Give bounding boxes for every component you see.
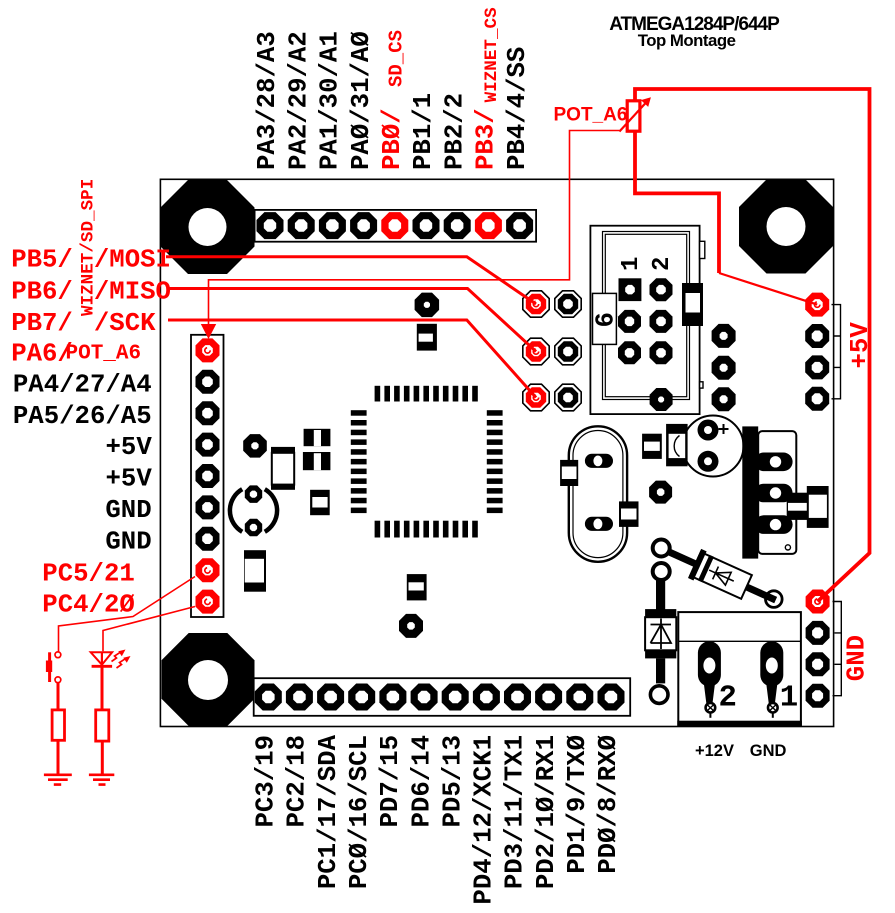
- top header pad PB&#216;: [381, 212, 408, 239]
- GND pad red: [806, 590, 830, 614]
- bottom header J2 outline: [254, 678, 631, 716]
- svg-text:+12V: +12V: [695, 742, 734, 760]
- top header pad PB2: [444, 212, 471, 239]
- svg-text:+5V: +5V: [106, 433, 153, 462]
- bottom header pad PD6: [411, 684, 438, 711]
- left header pad +5V: [196, 433, 220, 457]
- svg-text:PA5/26/A5: PA5/26/A5: [13, 402, 152, 431]
- diode D2 stem bottom: [656, 658, 665, 683]
- bottom header pad PD7: [379, 684, 406, 711]
- svg-text:+5V: +5V: [106, 465, 153, 494]
- svg-text:2: 2: [719, 681, 737, 716]
- power connector inner line: [678, 640, 801, 642]
- mounting hole top-left: [161, 180, 255, 274]
- wire PC5 to button: [59, 577, 196, 652]
- TO92 pad top: [245, 485, 262, 503]
- SMD L on crystal right: [619, 501, 639, 527]
- svg-text:PD1/9/TXØ: PD1/9/TXØ: [563, 735, 592, 874]
- ISP pad 6: [650, 341, 673, 364]
- SMD I: [407, 574, 427, 600]
- GND bracket: [833, 602, 842, 696]
- SMD M: [642, 434, 662, 459]
- top header pad PB4: [506, 212, 533, 239]
- svg-text:PD7/15: PD7/15: [376, 735, 405, 828]
- ISP pad 3: [618, 310, 641, 333]
- TO92 Q1 outline: [230, 489, 277, 532]
- ISP tab 6: [593, 293, 617, 344]
- regulator pad 1: [754, 453, 792, 472]
- ISP pad 2: [650, 278, 673, 301]
- +5V bracket: [832, 305, 841, 399]
- diode D2 stem top: [656, 580, 665, 610]
- svg-text:PBØ/: PBØ/: [378, 108, 407, 170]
- diode D2 symbol: [651, 619, 672, 650]
- svg-text:POT_A6: POT_A6: [554, 105, 628, 126]
- diode D1 pad bottom: [653, 563, 670, 580]
- svg-text:PCØ/16/SCL: PCØ/16/SCL: [345, 735, 374, 889]
- svg-text:PB6/: PB6/: [11, 277, 73, 306]
- svg-text:WIZNET_CS: WIZNET_CS: [482, 7, 502, 102]
- svg-text:6: 6: [592, 312, 621, 327]
- svg-text:PA2/29/A2: PA2/29/A2: [284, 31, 313, 170]
- SMD N with curve: [666, 424, 688, 466]
- C1 pad +: [698, 420, 719, 441]
- bottom header pad PC1: [317, 684, 344, 711]
- svg-text:GND: GND: [750, 742, 787, 760]
- svg-text:PC5/21: PC5/21: [42, 559, 135, 588]
- +5V pad red: [805, 293, 829, 317]
- left header pad GND: [196, 527, 220, 551]
- GND pad 3: [806, 652, 830, 676]
- resistor R2: [96, 710, 109, 741]
- power connector bottom thick edge: [677, 721, 802, 727]
- SMD H: [310, 490, 330, 515]
- diode D1 pad top: [653, 540, 670, 557]
- regulator U3 tab: [742, 426, 758, 558]
- svg-text:PD5/13: PD5/13: [438, 735, 467, 828]
- top header pad PB1: [413, 212, 440, 239]
- svg-text:WIZNET/SD_SPI: WIZNET/SD_SPI: [79, 179, 99, 316]
- svg-text:PDØ/8/RXØ: PDØ/8/RXØ: [594, 735, 623, 874]
- LED light arrows: [112, 652, 122, 662]
- via pad column right of ISP 2: [712, 356, 736, 380]
- bottom header pad PC&#216;: [348, 684, 375, 711]
- regulator heatsink pad: [807, 486, 829, 528]
- left header J3 outline: [191, 335, 224, 617]
- wire SCK: [168, 320, 536, 398]
- svg-text:PC2/18: PC2/18: [283, 735, 312, 828]
- via pad J: [399, 614, 423, 638]
- svg-text:/MISO: /MISO: [94, 277, 171, 306]
- svg-text:1: 1: [780, 681, 798, 716]
- GND pad 2: [806, 621, 830, 645]
- ISP bottom pad: [650, 388, 673, 411]
- via pad A: [415, 293, 440, 318]
- bottom header pad PC3: [255, 684, 282, 711]
- regulator pad 2: [754, 484, 792, 503]
- top header J1 outline: [255, 210, 536, 242]
- board outline: [160, 179, 833, 726]
- crystal pad 1: [585, 454, 613, 468]
- SMD K near PC5: [244, 550, 266, 592]
- bottom header pad PD1: [566, 684, 593, 711]
- C1 plus sign: [719, 424, 729, 434]
- crystal X1 outline: [569, 426, 627, 562]
- svg-text:Top Montage: Top Montage: [638, 31, 736, 50]
- diode D2 bottom pad: [650, 686, 668, 704]
- svg-text:PA6/: PA6/: [11, 339, 73, 368]
- svg-text:PA4/27/A4: PA4/27/A4: [13, 371, 152, 400]
- potentiometer POT_A6: [627, 101, 640, 131]
- svg-text:SD_CS: SD_CS: [386, 30, 408, 87]
- SPI pad PB7/SCK: [523, 384, 549, 411]
- regulator U3 body: [758, 431, 796, 554]
- wire R1 to ground: [57, 740, 60, 774]
- ISP box bump bottom: [700, 382, 703, 388]
- wire MISO: [167, 289, 536, 352]
- svg-text:PB4/4/SS: PB4/4/SS: [503, 47, 532, 170]
- wire PC4 to LED: [103, 607, 195, 652]
- top header pad PA&#216;: [350, 212, 377, 239]
- ground symbol S1: [44, 775, 72, 785]
- ISP inner box outer line: [603, 232, 690, 400]
- regulator pin1 mark: [785, 545, 790, 550]
- wire POT wiper to PA6: [209, 131, 620, 327]
- crystal pad 2: [585, 517, 613, 531]
- ISP pin1 square pad: [619, 278, 642, 301]
- wire R2 to ground: [101, 741, 104, 774]
- via pad C: [243, 434, 267, 458]
- bottom header pad PD&#216;: [598, 684, 625, 711]
- regulator heatsink bar: [787, 493, 809, 520]
- top header pad PB3: [475, 212, 502, 239]
- C1 pad -: [698, 451, 719, 472]
- SPI pad MOSI-b: [555, 291, 581, 317]
- svg-text:PD4/12/XCK1: PD4/12/XCK1: [470, 735, 499, 905]
- svg-text:PC1/17/SDA: PC1/17/SDA: [314, 734, 343, 889]
- bottom header pad PD2: [535, 684, 562, 711]
- regulator pad 3: [754, 515, 792, 534]
- svg-text:PD3/11/TX1: PD3/11/TX1: [501, 735, 530, 889]
- left header pad PA5: [196, 401, 220, 425]
- SMD cap D: [271, 447, 295, 453]
- resistor R1: [52, 710, 64, 740]
- ISP box bump top: [700, 241, 705, 258]
- SMD resistor B: [417, 324, 437, 351]
- top header pad PA3: [257, 212, 284, 239]
- svg-text:PB5/: PB5/: [11, 246, 73, 275]
- left header pad GND: [196, 495, 220, 519]
- svg-text:/SCK: /SCK: [94, 309, 156, 338]
- SMD F: [304, 429, 331, 446]
- top header pad PA2: [288, 212, 315, 239]
- left header pad PA4: [196, 370, 220, 394]
- svg-text:/MOSI: /MOSI: [94, 246, 171, 275]
- bottom header pad PD3: [504, 684, 531, 711]
- wire POT top to GND pad: [635, 89, 870, 602]
- left header pad +5V: [196, 464, 220, 488]
- SMD K2 on crystal left: [560, 460, 578, 486]
- bottom header pad PD5: [442, 684, 469, 711]
- svg-text:GND: GND: [105, 527, 151, 556]
- ISP key tab: [682, 283, 703, 326]
- power terminal 1: [760, 641, 783, 686]
- left header pad PC4: [196, 590, 220, 614]
- ISP header U2 outer box: [590, 226, 699, 414]
- +5V pad 2: [805, 324, 829, 348]
- svg-text:PC4/2Ø: PC4/2Ø: [42, 591, 135, 620]
- svg-text:PB7/: PB7/: [11, 309, 73, 338]
- ISP inner box inner line: [605, 234, 686, 396]
- SPI pad PB5/MOSI: [523, 291, 549, 317]
- via pad O: [649, 481, 672, 504]
- via pad column right of ISP 1: [712, 324, 736, 348]
- svg-text:PB3/: PB3/: [472, 108, 501, 170]
- svg-text:GND: GND: [105, 496, 151, 525]
- ground symbol D3: [89, 775, 114, 785]
- svg-text:2: 2: [649, 257, 676, 271]
- wire end marks in red pad holes: [533, 301, 538, 306]
- mounting hole bottom-left: [162, 633, 255, 726]
- bottom header pad PD4: [473, 684, 500, 711]
- wire MOSI: [166, 257, 536, 304]
- TO92 pad bottom: [245, 519, 262, 536]
- svg-text:POT_A6: POT_A6: [66, 343, 142, 366]
- svg-text:GND: GND: [843, 635, 872, 681]
- SPI pad PB6/MISO: [523, 338, 549, 365]
- QFP44 U1 pads: [351, 386, 503, 538]
- diode D1 right pad: [766, 591, 783, 608]
- left header pad PC5: [196, 558, 220, 582]
- wire LED to R2: [101, 666, 104, 710]
- svg-text:1: 1: [618, 257, 645, 271]
- power terminal 2: [698, 641, 721, 686]
- GND pad 4: [806, 684, 830, 708]
- svg-text:PC3/19: PC3/19: [252, 735, 281, 828]
- electrolytic cap C1 outline: [683, 416, 744, 477]
- svg-text:PD6/14: PD6/14: [407, 735, 436, 828]
- power connector J4 box: [678, 612, 801, 725]
- SPI pad MISO-b: [555, 338, 581, 365]
- svg-text:PD2/1Ø/RX1: PD2/1Ø/RX1: [532, 735, 561, 889]
- via pad column right of ISP 3: [712, 387, 736, 411]
- svg-text:PA3/28/A3: PA3/28/A3: [253, 31, 282, 170]
- +5V pad 4: [805, 387, 829, 411]
- diode D1 body (angled): [662, 537, 782, 614]
- wire button to R1: [57, 683, 60, 710]
- mounting hole top-right: [739, 180, 833, 274]
- svg-text:PB2/2: PB2/2: [440, 93, 469, 170]
- left header pad PA6: [196, 338, 220, 362]
- LED D3: [91, 652, 112, 664]
- svg-text:PA1/30/A1: PA1/30/A1: [316, 31, 345, 170]
- diode D2 body: [645, 609, 676, 617]
- ISP pad 5: [618, 341, 641, 364]
- SMD G: [303, 452, 331, 470]
- button S1: [55, 652, 61, 658]
- +5V pad 3: [805, 355, 829, 379]
- ISP pad 4: [650, 310, 673, 333]
- top header pad PA1: [319, 212, 346, 239]
- bottom header pad PC2: [286, 684, 313, 711]
- svg-text:PB1/1: PB1/1: [409, 93, 438, 170]
- svg-text:PAØ/31/AØ: PAØ/31/AØ: [347, 31, 376, 170]
- SPI pad SCK-b: [555, 384, 581, 411]
- wire POT bottom to +5V pad: [635, 130, 719, 273]
